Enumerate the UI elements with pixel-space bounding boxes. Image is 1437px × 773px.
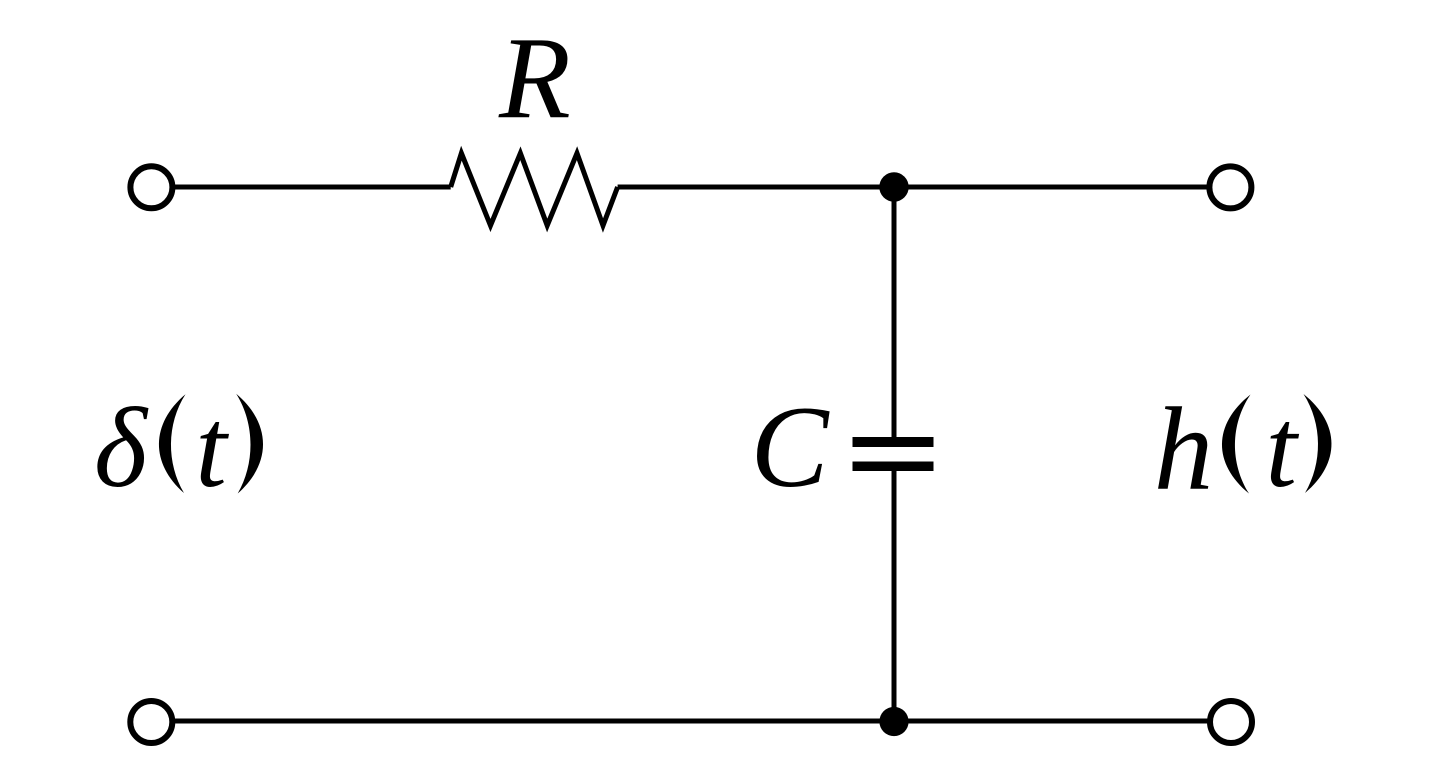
resistor R (451, 153, 618, 225)
output label close paren (1304, 394, 1332, 493)
svg-text:h: h (1154, 383, 1214, 515)
svg-text:C: C (751, 383, 831, 512)
wire capacitor upper (892, 187, 897, 438)
wire top-right segment (618, 185, 1231, 190)
wire top-left segment (151, 185, 451, 190)
terminal bottom-left (130, 701, 172, 743)
svg-text:t: t (195, 386, 229, 511)
terminal bottom-right (1210, 701, 1252, 743)
terminal top-left (130, 166, 172, 208)
capacitor C1 bottom plate (853, 462, 934, 472)
svg-text:δ: δ (94, 384, 149, 511)
node junction top (879, 172, 908, 201)
terminal top-right (1209, 166, 1251, 208)
svg-text:R: R (498, 14, 571, 144)
node junction bottom (879, 707, 908, 736)
output label open paren (1222, 395, 1250, 494)
input label open paren (159, 394, 186, 493)
capacitor C1 top plate (853, 437, 934, 447)
wire bottom rail (151, 719, 1231, 724)
input label close paren (236, 394, 263, 494)
wire capacitor lower (892, 471, 897, 722)
svg-text:t: t (1266, 386, 1300, 511)
